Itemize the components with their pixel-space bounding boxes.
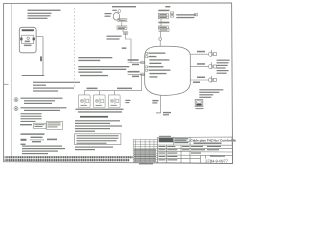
TR box 3 [108, 95, 120, 108]
terminal box [22, 35, 34, 43]
paragraph 3 [22, 146, 65, 155]
label bar [22, 29, 34, 31]
left margin line [10, 3, 12, 161]
note text top-left [28, 10, 61, 19]
terminal R [33, 38, 35, 41]
wire W2 into controller [128, 73, 145, 75]
ground loop note A [78, 57, 112, 61]
wire W-R2 [190, 66, 208, 68]
fold dashed line [74, 8, 76, 89]
wire down to controller [126, 34, 132, 62]
wire W-R3 [190, 79, 208, 81]
small symbol [118, 10, 121, 13]
ground line [22, 75, 45, 77]
connector X3 [209, 76, 217, 82]
node date label [112, 10, 117, 11]
svg-text:Cable plan THZ No / Comfort No: Cable plan THZ No / Comfort No [191, 139, 237, 143]
connection box J1 [195, 100, 203, 107]
caption under ground [33, 82, 80, 92]
connector X2 [209, 62, 217, 68]
frame border [4, 3, 233, 164]
example heading [21, 133, 45, 134]
note right of boxes [125, 100, 130, 103]
end tick [156, 112, 161, 114]
paragraph 2 [21, 107, 67, 111]
controller internal text [146, 52, 171, 77]
twin wires note [176, 14, 196, 18]
formula [21, 139, 27, 141]
speaker circle [27, 37, 29, 39]
fine print row 1 [5, 156, 133, 159]
mid label [122, 47, 127, 49]
wire W-R1 [190, 53, 208, 55]
revision table [133, 140, 158, 162]
top centre note [112, 6, 170, 7]
TR box 1 [78, 95, 90, 108]
centre paragraph [75, 120, 122, 132]
wire to dome [159, 40, 161, 46]
controller cloud U2 [145, 46, 191, 95]
TR box 2 [93, 95, 105, 108]
cable size row [20, 124, 32, 125]
wire [160, 19, 162, 26]
TR bus [84, 90, 141, 92]
cable name [107, 36, 122, 40]
cap limit label [158, 10, 169, 12]
row labels [159, 146, 226, 161]
outlet wire down [160, 96, 162, 113]
TR mini symbol [170, 12, 173, 17]
fold tick [4, 83, 9, 85]
terminal L [20, 38, 22, 41]
wire [122, 30, 124, 32]
bell M1 [113, 12, 119, 20]
note B [78, 66, 129, 76]
stubs [83, 91, 85, 95]
junction riser [141, 74, 143, 90]
svg-text:3784-9-0977: 3784-9-0977 [205, 158, 228, 163]
node circle [159, 38, 162, 41]
note 2 circle [14, 107, 18, 111]
wire with node [159, 31, 161, 37]
label box LB1 [118, 19, 127, 22]
wire from pedestal [36, 37, 43, 76]
mid label [158, 22, 169, 24]
fine print row 2 [5, 159, 130, 162]
terminal pair TP2 [158, 26, 169, 31]
connection box note [199, 89, 223, 98]
wire bell to box [119, 19, 122, 21]
paragraph 1 [21, 98, 63, 104]
note 1 circle [14, 98, 18, 102]
dimension 1500 [40, 56, 42, 61]
logo [159, 138, 173, 142]
label box LB3 [123, 32, 128, 35]
help point pedestal U1 [19, 27, 36, 53]
label box LB2 [117, 26, 127, 30]
captions under TR boxes [76, 109, 124, 113]
terminal T1 [141, 61, 145, 64]
wire [121, 22, 123, 26]
terminal T2 [141, 73, 145, 76]
list [21, 113, 42, 122]
boxed note [75, 134, 121, 145]
text above title block [159, 136, 171, 137]
connector X1 [209, 50, 217, 56]
title block [158, 137, 233, 163]
wire W1 into controller [128, 62, 145, 64]
white stroke heading [80, 116, 108, 118]
cable note right [217, 60, 230, 74]
terminal pair TP1 [158, 13, 168, 18]
